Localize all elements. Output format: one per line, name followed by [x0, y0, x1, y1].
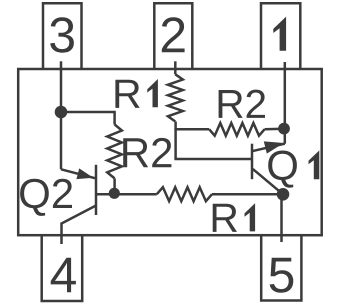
transistor Q1 emitter arrowhead [264, 141, 284, 153]
transistor Q2 emitter diagonal [61, 169, 95, 178]
wire pin1 lead down through node B to Q1 emitter [284, 62, 287, 144]
pin 5 pad box [261, 235, 301, 300]
resistor R1 horizontal zigzag [157, 187, 212, 201]
pin 2 number [162, 17, 185, 52]
transistor Q2 emitter arrowhead [76, 168, 93, 179]
junction node D dot [277, 188, 290, 201]
pin 3 number [50, 17, 74, 52]
wire R2 bottom to node C [113, 178, 116, 193]
transistor Q1 base bar [251, 144, 254, 180]
label R2 middle [123, 138, 171, 167]
wire pin2 lead down to R1 [174, 61, 177, 74]
wire Q1 base [174, 158, 252, 161]
label Q2 [20, 179, 72, 216]
junction node A dot [55, 106, 68, 119]
transistor Q2 base bar [95, 165, 98, 215]
pin 5 number [270, 258, 294, 293]
pin 2 pad box [154, 3, 192, 69]
label Q1 [268, 151, 297, 188]
wire branch to R2 horizontal [174, 128, 209, 131]
wire R2 horizontal to node B [265, 128, 285, 131]
wire R1 horizontal to node D [212, 193, 283, 196]
wire pin3 lead down to node A [60, 61, 63, 112]
package body outline [18, 69, 322, 235]
transistor Q1 emitter diagonal [253, 144, 285, 151]
pin 4 number [51, 258, 76, 292]
label R2 top [219, 90, 265, 118]
wire node stem below R1 [174, 122, 177, 160]
resistor R1 vertical zigzag [168, 74, 183, 121]
junction node B dot [278, 123, 290, 135]
pin 4 pad box [42, 235, 82, 301]
resistor R2 horizontal zigzag [209, 123, 264, 136]
wire horizontal run Q2 base to R1 [96, 193, 157, 196]
pin 3 pad box [43, 3, 82, 69]
wire Q2 emitter vertical from node A [60, 112, 63, 169]
wire node D down to pin5 [280, 194, 283, 242]
resistor R2 vertical zigzag [107, 125, 122, 179]
label R1 top [115, 80, 139, 108]
junction node C dot [109, 188, 120, 199]
pin 1 number [273, 17, 286, 51]
transistor Q1 collector diagonal [253, 169, 283, 194]
pin 1 pad box [261, 3, 300, 69]
label R1 bottom [213, 204, 237, 232]
wire node A horizontal to R2 top [61, 112, 115, 125]
transistor Q2 collector diagonal to pin4 [62, 206, 97, 245]
